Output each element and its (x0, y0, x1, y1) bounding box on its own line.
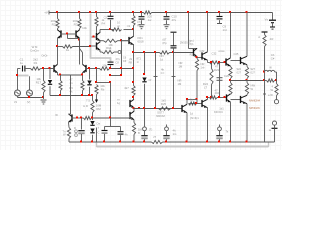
gray net: bottom return bus (97, 142, 269, 147)
elcap C15 (216, 125, 229, 143)
junction bottom rail x=219 (218, 141, 220, 143)
resistor R14 (69, 75, 84, 96)
svg-text:CmCm: CmCm (30, 49, 39, 53)
diode D5 (83, 69, 92, 109)
svg-text:43r: 43r (270, 37, 274, 41)
svg-text:R: R (110, 46, 112, 50)
svg-text:NR: NR (178, 79, 182, 83)
junction R17 top (42, 67, 44, 69)
resistor R9 (100, 39, 129, 50)
junction top rail x=79 (78, 11, 80, 13)
wire mid column (133, 44, 135, 68)
svg-text:-C: -C (97, 131, 100, 135)
resistor R20 (195, 56, 204, 104)
wire predriver base (189, 39, 202, 58)
junction bottom rail x=186.5 (186, 141, 188, 143)
transistor Q7b (91, 41, 101, 51)
junction bottom rail x=81 (80, 141, 82, 143)
junction input (16, 74, 18, 76)
wire return col (263, 81, 273, 143)
svg-text:(67: (67 (163, 38, 167, 42)
svg-text:R8: R8 (129, 61, 133, 65)
svg-text:4h: 4h (125, 133, 128, 137)
wire source ground bus (18, 96, 45, 98)
junction top rail x=246.5 (246, 11, 248, 13)
svg-text:OrOr: OrOr (41, 53, 47, 57)
junction bottom rail x=133.5 (133, 141, 135, 143)
inductor L1 (263, 66, 277, 81)
trimmer RV1 (97, 126, 108, 142)
wire top +V rail (50, 12, 273, 14)
wire driver-output base top (231, 60, 241, 62)
svg-text:404: 404 (215, 91, 220, 95)
transistor Q14 (driver top) (226, 13, 239, 67)
resistor R19 in bus (160, 51, 170, 54)
svg-text:+V: +V (44, 11, 48, 15)
wire y126 branch (105, 118, 121, 127)
wire output bus (231, 79, 278, 82)
transistor Q8 (VAS) (122, 30, 144, 45)
terminal bottom battery (269, 121, 278, 142)
wire feedback bus y68 (86, 64, 134, 71)
svg-text:1r: 1r (137, 60, 139, 64)
junction top rail x=207 (206, 11, 208, 13)
svg-text:1rb: 1rb (201, 66, 205, 70)
junction bottom rail x=104 (103, 141, 105, 143)
svg-text:0J7: 0J7 (237, 70, 242, 74)
resistor R10 (124, 69, 135, 99)
wire Vs battery drop (272, 13, 274, 20)
svg-text:0J7: 0J7 (251, 70, 256, 74)
resistor R28 (229, 81, 232, 95)
wire Q7a collector (100, 30, 111, 33)
resistor R25 (156, 99, 170, 119)
wire feedback node link (121, 39, 123, 76)
wire bias ladder bus (50, 94, 93, 96)
junction top rail x=133 (132, 11, 134, 13)
junction top rail x=96 (95, 11, 97, 13)
junction bottom rail x=92 (91, 141, 93, 143)
svg-text:Da: Da (97, 122, 101, 126)
diode D3b (90, 122, 100, 143)
junction bottom rail x=246.5 (246, 141, 248, 143)
junction bottom rail x=120 (119, 141, 121, 143)
zobel resistor (258, 35, 275, 73)
svg-text:R3: R3 (74, 22, 78, 26)
svg-text:47: 47 (215, 65, 218, 69)
resistor R18 in rail (144, 11, 153, 22)
capacitor C8 (108, 56, 133, 69)
svg-text:W: W (269, 66, 272, 70)
svg-text:ar: ar (117, 24, 120, 28)
svg-text:LT: LT (204, 86, 207, 90)
svg-text:47r: 47r (137, 20, 141, 24)
resistor R12 (vbe emitter) (132, 120, 143, 142)
resistor R7 (VAS load) (109, 21, 134, 32)
junction bottom rail x=166 (165, 141, 167, 143)
text mirror labels (30, 45, 48, 57)
wire q12 collector link (186, 98, 197, 100)
junction top rail x=230 (229, 11, 231, 13)
text misc (137, 57, 142, 64)
wire VAS out bus y52 (134, 51, 194, 53)
svg-text:W: W (55, 113, 58, 117)
svg-text:C#: C# (271, 56, 275, 60)
junction top rail x=90 (89, 11, 91, 13)
svg-text:7.5: 7.5 (86, 99, 90, 103)
load resistor RL (270, 81, 278, 100)
svg-text:10k: 10k (82, 26, 87, 30)
svg-text:m D: m D (83, 104, 88, 108)
resistor R5 (58, 45, 92, 52)
svg-text:a W: a W (268, 93, 273, 97)
transistor Q4 (mirror right) (76, 30, 80, 38)
svg-text:A: A (258, 35, 260, 39)
zobel cap bar (262, 32, 268, 35)
battery Vs (264, 17, 276, 29)
svg-text:RM: RM (96, 107, 101, 111)
capacitor C1 (20, 58, 31, 72)
svg-text:KD1: KD1 (138, 36, 144, 40)
svg-text:Vs: Vs (264, 17, 268, 21)
capacitor C3 (139, 13, 145, 29)
svg-text:1d: 1d (190, 112, 194, 116)
svg-text:NR: NR (201, 62, 205, 66)
svg-text:R17: R17 (36, 80, 42, 84)
svg-text:V1: V1 (14, 100, 18, 104)
svg-text:R23: R23 (214, 68, 219, 72)
junction VAS emitter (132, 51, 134, 53)
wire mirror bases (61, 33, 80, 41)
source V2 (27, 76, 33, 104)
junction y108 (133, 107, 141, 109)
tail current source Q5 (69, 75, 73, 122)
svg-text:47u: 47u (116, 57, 121, 61)
wire bottom rail (69, 141, 275, 143)
resistor R6 (132, 13, 141, 30)
resistor R13 (59, 75, 73, 96)
wire vbe base line (55, 113, 130, 120)
resistor R26 (229, 66, 242, 81)
junction top rail x=166 (165, 11, 167, 13)
svg-text:R1: R1 (34, 61, 38, 65)
transistor Q12 (182, 100, 187, 113)
wire diff left collector (57, 47, 59, 65)
svg-text:Rb: Rb (101, 87, 105, 91)
svg-text:C2: C2 (104, 16, 108, 20)
resistor R1 (31, 58, 54, 71)
svg-text:NW: NW (251, 84, 256, 88)
diode D3a (74, 118, 95, 130)
svg-text:1g: 1g (117, 101, 121, 105)
wire col188 top (189, 13, 198, 49)
svg-text:R4: R4 (102, 21, 106, 25)
terminal out (274, 100, 278, 104)
resistor R29 (245, 81, 255, 96)
elcap C5 (75, 118, 85, 142)
transistor Q13 (pre-driver top) (202, 13, 217, 61)
junction top rail x=57 (56, 11, 58, 13)
wire col155 (154, 53, 165, 109)
resistor R27 (245, 65, 255, 81)
svg-text:D: D (74, 126, 76, 130)
junction top rail x=110 (109, 11, 111, 13)
wire fb col x96 (95, 69, 97, 84)
vertical bias R col211 (203, 61, 218, 98)
svg-text:1d1: 1d1 (219, 107, 224, 111)
svg-text:NRCM: NRCM (156, 114, 165, 118)
wire driver-output base bottom (231, 99, 241, 101)
capacitor C10 (164, 13, 178, 29)
wire input node (18, 69, 21, 91)
svg-text:927: 927 (251, 67, 256, 71)
capacitor C7 col173 (162, 32, 176, 52)
elcap C14 (163, 125, 177, 143)
transistor Q1 (diff left) (50, 64, 58, 72)
svg-text:NPNN2N: NPNN2N (249, 106, 260, 110)
svg-text:R2: R2 (52, 22, 56, 26)
gray net: input stub (18, 75, 29, 77)
svg-text:C#: C# (123, 59, 127, 63)
svg-text:C32: C32 (212, 52, 217, 56)
wire y108 bus (134, 107, 182, 109)
resistor R21 in bottom rail (152, 140, 163, 143)
wire mirror left collector (56, 38, 58, 47)
transistor Q9 (130, 98, 134, 108)
junction input base (49, 67, 51, 69)
resistor R3 (72, 13, 87, 31)
current probe arrow (95, 98, 102, 111)
junction top rail x=219 (218, 11, 220, 13)
wire stub x96 bottom (96, 128, 98, 143)
svg-text:47u: 47u (172, 18, 177, 22)
wire y82 link (97, 81, 112, 91)
junction bottom rail x=230 (229, 141, 231, 143)
junction top rail x=141 (140, 11, 142, 13)
svg-text:C6: C6 (123, 56, 127, 60)
svg-text:C25: C25 (234, 52, 239, 56)
svg-text:R22: R22 (190, 53, 195, 57)
wire diff right collector (80, 39, 83, 65)
svg-text:(N=4(1: (N=4(1 (190, 116, 199, 120)
svg-text:1d: 1d (160, 58, 164, 62)
vertical col219 with cap (217, 49, 230, 98)
svg-text:1m: 1m (173, 132, 178, 136)
elcap C13 (141, 109, 156, 143)
svg-text:C=: C= (161, 71, 165, 75)
resistor R4 (95, 13, 106, 33)
svg-text:C(1: C(1 (189, 42, 194, 46)
svg-text:6018: 6018 (138, 39, 144, 43)
diode D6 col144 (142, 53, 151, 109)
wire y97 (206, 91, 227, 99)
svg-text:922: 922 (237, 67, 242, 71)
svg-text:(Pp: (Pp (162, 41, 167, 45)
svg-text:erree: erree (218, 49, 225, 53)
wire col187 bottom (186, 113, 188, 142)
diode D4 (48, 69, 52, 96)
svg-text:JT: JT (153, 135, 156, 139)
transistor Q17 (driver bottom) (214, 94, 231, 142)
svg-text:R25: R25 (161, 102, 167, 106)
transistor Q2 (diff right) (83, 64, 90, 72)
transistor Q10 (Vbe mult) (130, 111, 134, 119)
svg-text:NANI2N4: NANI2N4 (249, 99, 261, 103)
node +V label (44, 11, 49, 15)
wire fb col x110 (111, 83, 121, 119)
svg-text:B: B (138, 131, 140, 135)
svg-text:NR: NR (179, 61, 183, 65)
wire col173 (172, 53, 183, 109)
capacitor C6 (118, 127, 128, 143)
gray net: feedback branch x=90 (90, 14, 111, 62)
svg-text:KD=KC: KD=KC (214, 110, 223, 114)
junction bottom rail x=207 (206, 141, 208, 143)
svg-text:C8: C8 (116, 60, 120, 64)
svg-text:871: 871 (137, 57, 142, 61)
resistor R8 (95, 85, 98, 98)
text output models (249, 99, 261, 111)
svg-text:1u: 1u (20, 61, 24, 65)
wire mirror right collector (79, 38, 81, 64)
svg-text:7n: 7n (63, 129, 66, 133)
svg-text:tec(: tec( (189, 39, 194, 43)
source V1 (14, 90, 21, 104)
svg-text:C#2: C#2 (200, 49, 205, 53)
svg-text:1rd: 1rd (223, 28, 227, 32)
wire y75 link (109, 74, 122, 76)
wire emitters join (58, 73, 84, 76)
svg-text:rr1: rr1 (127, 24, 131, 28)
svg-text:(V): (V) (27, 100, 31, 104)
resistor R17 to gnd (36, 69, 45, 98)
resistor R2 (50, 13, 59, 31)
svg-text:4n: 4n (69, 81, 73, 85)
wire y62 (208, 60, 227, 72)
resistor R11 (100, 46, 121, 54)
junction (120, 67, 122, 69)
wire predriver base bottom (189, 97, 203, 120)
svg-text:(T): (T) (149, 128, 153, 132)
transistor Q18 (output PNP) (241, 95, 248, 142)
transistor Q3 (mirror left) (58, 30, 62, 38)
capacitor C2 top (104, 13, 114, 30)
resistor R15 (86, 96, 94, 119)
transistor Q11 (180, 41, 205, 57)
svg-text:4k7: 4k7 (124, 86, 129, 90)
junction (95, 67, 97, 69)
junction bottom rail x=144 (143, 141, 145, 143)
junction top rail x=188 (187, 11, 189, 13)
resistor R16 (63, 122, 71, 142)
ground input (41, 98, 47, 105)
svg-text:10k: 10k (102, 64, 107, 68)
transistor Q16 (pre-driver bottom) (202, 99, 208, 142)
svg-text:Cf: Cf (149, 78, 152, 82)
transistor Q15 (output NPN) (241, 13, 248, 65)
capacitor C9 (217, 13, 227, 33)
transistor Q7a (92, 32, 101, 40)
wire q9-q10 (133, 108, 135, 112)
